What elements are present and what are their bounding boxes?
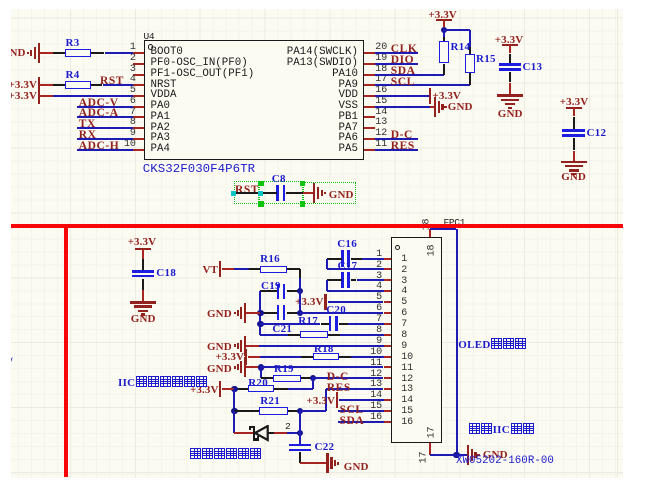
FPC1 pin 16 stub xyxy=(384,421,392,423)
R20 left lead xyxy=(236,388,248,390)
U4 pin 4 stub xyxy=(133,84,144,86)
ground (C8) xyxy=(313,183,315,203)
FPC1 pin name 1 (inside) xyxy=(401,254,407,265)
junction R21 right/RES xyxy=(297,408,303,414)
selection box (RST label) xyxy=(234,181,259,204)
net label D-C (U4) xyxy=(391,129,413,141)
R17 left lead xyxy=(288,334,300,336)
ground (C13) xyxy=(497,94,523,96)
junction +3.3V/R20/R21 xyxy=(231,386,237,392)
divider line vertical (red) xyxy=(64,224,68,477)
FPC1 pin name 6 (inside) xyxy=(401,308,407,319)
label select IIC mode (chinese) xyxy=(469,423,534,436)
divider line horizontal (red) xyxy=(11,224,624,228)
U4 pin name PA2 xyxy=(151,122,170,134)
label R16 xyxy=(260,253,280,265)
wire pin6 xyxy=(300,312,384,314)
U4 pin 2 stub xyxy=(133,63,144,65)
U4 pin number 5 xyxy=(130,85,136,96)
label IIC data address select (chinese) xyxy=(118,376,207,389)
net label CLK xyxy=(391,43,418,55)
net label TX xyxy=(79,118,96,130)
junction R21 left xyxy=(231,408,237,414)
wire ADC-V to pin6 xyxy=(77,106,133,108)
resistor R15 xyxy=(465,54,475,74)
FPC1 pin 9 stub xyxy=(384,345,392,347)
U4 pin 20 stub xyxy=(364,52,375,54)
U4 pin number 6 xyxy=(130,96,136,107)
FPC1 pin 12 stub xyxy=(384,377,392,379)
wire down to C19 node xyxy=(299,278,301,291)
R19 right lead xyxy=(301,377,314,379)
wire +3.3V to pin5 xyxy=(53,95,133,97)
wire +3.3V column down to R21 xyxy=(233,389,235,411)
C20 right lead xyxy=(339,323,349,325)
FPC1 pin name 11 (inside) xyxy=(401,363,413,374)
FPC1 pin 7 stub xyxy=(384,323,392,325)
wire gnd to node xyxy=(246,312,260,314)
power port +3.3V bar (pin5) xyxy=(324,294,326,310)
junction C21 right/pin6 xyxy=(297,310,303,316)
U4 pin name PA6 xyxy=(339,132,358,144)
power port +3.3V bar (C18) xyxy=(135,248,151,250)
FPC1 pin name 13 (inside) xyxy=(401,384,413,395)
wire R18 to pin10 xyxy=(351,356,384,358)
R19 left lead xyxy=(261,377,273,379)
FPC1 pin number 11 (outside) xyxy=(370,358,382,369)
junction D-C node xyxy=(310,375,316,381)
wire pin9 xyxy=(259,345,384,347)
wire ADC-A to pin7 xyxy=(77,116,133,118)
FPC1 pin 14 stub xyxy=(384,399,392,401)
C21 right lead xyxy=(287,312,300,314)
ground label GND xyxy=(1,47,26,59)
resistor R14 xyxy=(439,41,449,64)
FPC1 pin name 10 (inside) xyxy=(401,352,413,363)
U4 pin number 2 xyxy=(130,53,136,64)
FPC1 pin 3 stub xyxy=(384,279,392,281)
wire VT (red) xyxy=(222,268,234,270)
C16 right lead xyxy=(351,258,362,260)
ground label GND (pin6 node) xyxy=(207,308,232,320)
U4 pin name NRST xyxy=(151,79,177,91)
ground (left of R3) xyxy=(38,43,40,63)
capacitor C13 xyxy=(499,63,522,66)
U4 pin number 15 xyxy=(375,96,387,107)
U4 pin 9 stub xyxy=(133,138,144,140)
FPC1 pin name 12 (inside) xyxy=(401,374,413,385)
ground (pin9) xyxy=(234,344,236,346)
R18 right lead xyxy=(339,356,351,358)
selection handle (green) xyxy=(258,181,263,186)
wire RES up to pin13 row xyxy=(325,389,327,411)
FPC1 pin name 18 (inside, rotated) xyxy=(426,244,437,256)
FPC1 pin number 5 (outside) xyxy=(376,292,382,303)
wire TX to pin8 xyxy=(77,127,133,129)
viewport margin right xyxy=(623,0,647,487)
wire RES node right xyxy=(300,410,326,412)
net label ADC-H xyxy=(79,140,119,152)
U4 pin 10 stub xyxy=(133,149,144,151)
U4 pin number 12 xyxy=(375,128,387,139)
FPC1 pin name 9 (inside) xyxy=(401,341,407,352)
stem +3.3V xyxy=(443,20,445,28)
resistor R18 xyxy=(313,353,339,360)
R15 top lead xyxy=(469,47,471,54)
stem +3.3V C13 xyxy=(509,45,511,53)
wire gnd column to R17 xyxy=(260,334,288,336)
selection box (GND port) xyxy=(303,182,357,204)
U4 pin 16 stub xyxy=(364,95,375,97)
wire pin18 to pin17 (vertical) xyxy=(456,229,458,455)
wire gnd to R3 xyxy=(40,52,53,54)
FPC1 pin number 9 (outside) xyxy=(376,336,382,347)
FPC1 pin name 2 (inside) xyxy=(401,265,407,276)
label C8 xyxy=(272,173,286,185)
U4 pin 15 stub xyxy=(364,106,375,108)
junction pin17/gnd xyxy=(453,452,459,458)
ground label GND (C13) xyxy=(498,108,523,120)
power label +3.3V (pin14) xyxy=(307,395,335,407)
port label VT xyxy=(203,264,218,276)
U4 pin name VDDA xyxy=(151,89,177,101)
R14 bottom lead to SDA xyxy=(443,64,445,75)
power label +3.3V (pin5) xyxy=(295,296,323,308)
FPC1 pin name 3 (inside) xyxy=(401,276,407,287)
FPC1 pin 6 stub xyxy=(384,312,392,314)
port VT bar xyxy=(219,261,221,277)
selection handle (green) xyxy=(258,201,263,206)
U4 pin name PB1 xyxy=(339,111,358,123)
FPC1 pin name 5 (inside) xyxy=(401,297,407,308)
ground label GND (C8) xyxy=(329,189,354,201)
U4 pin number 11 xyxy=(375,139,387,150)
C17 left lead xyxy=(327,279,342,281)
U4 pin 13 stub xyxy=(364,127,375,129)
viewport margin bottom xyxy=(0,478,647,487)
stem +3.3V C18 xyxy=(142,249,144,259)
FPC1 pin 8 stub xyxy=(384,334,392,336)
designator FPC1 xyxy=(444,217,466,228)
junction diode/C22 xyxy=(297,430,303,436)
resistor R17 xyxy=(300,331,329,339)
power label +3.3V (top) xyxy=(428,9,456,21)
wire C16 to pin1 xyxy=(362,258,384,260)
wire ADC-H to pin10 xyxy=(77,149,133,151)
C18 bottom lead xyxy=(142,279,144,290)
power label +3.3V (R20) xyxy=(190,384,218,396)
U4 pin number 9 xyxy=(130,128,136,139)
U4 pin number 4 xyxy=(130,74,136,85)
power port +3.3V bar (C12) xyxy=(566,107,582,109)
U4 pin name PA14(SWCLK) xyxy=(287,46,358,58)
C18 top lead xyxy=(142,259,144,271)
R20 right lead xyxy=(274,388,288,390)
pin-1 marker dot FPC1 xyxy=(395,245,400,250)
junction C19/R16 xyxy=(297,288,303,294)
wire gnd column to C20 xyxy=(260,323,320,325)
wire D-C node down xyxy=(312,378,314,389)
U4 pin number 16 xyxy=(375,85,387,96)
wire R4 to pin4 (RST) xyxy=(103,84,134,86)
U4 pin 19 stub xyxy=(364,63,375,65)
power port +3.3V bar (left, pins 4/5) xyxy=(38,77,40,104)
ground (pin6 node) xyxy=(234,312,236,314)
wire pin4 xyxy=(327,290,384,292)
wire C20 to pin7 xyxy=(348,323,384,325)
wire down to R19 xyxy=(260,367,262,378)
junction pin7/gnd column xyxy=(257,321,263,327)
power port +3.3V bar (pin10) xyxy=(245,349,247,365)
selection handle (cyan) xyxy=(258,191,263,196)
wire pin5 xyxy=(328,301,384,303)
ground label GND (C22) xyxy=(344,461,369,473)
capacitor C22 xyxy=(289,444,312,447)
FPC1 pin 2 stub xyxy=(384,268,392,270)
wire RST to C8 xyxy=(233,192,261,194)
FPC1 pin 15 stub xyxy=(384,410,392,412)
U4 pin 1 stub xyxy=(133,52,144,54)
U4 pin name PA13(SWDIO) xyxy=(287,57,358,69)
FPC1 pin number 7 (outside) xyxy=(376,314,382,325)
U4 pin name PF0-OSC_IN(PF0) xyxy=(151,57,248,69)
wire pin16 VDD xyxy=(375,95,430,97)
resistor R21 xyxy=(259,407,288,415)
capacitor C17 xyxy=(341,272,344,288)
wire pin12 D-C xyxy=(375,138,418,140)
ground label GND (pin11) xyxy=(207,363,232,375)
U4 pin 14 stub xyxy=(364,116,375,118)
label R3 xyxy=(66,37,80,49)
label C22 xyxy=(315,441,335,453)
junction C21 left/gnd xyxy=(257,310,263,316)
power label +3.3V (C12) xyxy=(560,96,588,108)
label C16 xyxy=(337,238,357,250)
C12 top lead xyxy=(573,117,575,131)
FPC1 pin 18 stub xyxy=(429,229,431,237)
junction (R14/R15 top) xyxy=(441,27,447,33)
wire pin15 VSS xyxy=(375,106,430,108)
C19 right lead xyxy=(287,290,300,292)
C22 bottom lead xyxy=(299,452,301,463)
FPC1 pin name 15 (inside) xyxy=(401,406,413,417)
U4 pin name PA5 xyxy=(339,143,358,155)
power port +3.3V bar (pin16) xyxy=(429,88,431,104)
wire pin12 D-C xyxy=(313,377,383,379)
U4 pin name VSS xyxy=(339,100,358,112)
wire gnd pin9 xyxy=(246,345,259,347)
wire C18 to gnd xyxy=(142,290,144,302)
FPC1 pin name 16 (inside) xyxy=(401,417,413,428)
wire gnd pin11 xyxy=(246,366,261,368)
viewport margin top xyxy=(0,0,647,9)
FPC1 pin number 12 (outside) xyxy=(370,369,382,380)
label R19 xyxy=(274,363,294,375)
R21 right lead xyxy=(288,410,300,412)
R3 left lead xyxy=(53,52,65,54)
U4 pin number 18 xyxy=(375,64,387,75)
U4 pin 7 stub xyxy=(133,116,144,118)
capacitor C18 xyxy=(132,270,155,273)
R14 top lead xyxy=(443,37,445,41)
label R14 xyxy=(451,41,471,53)
power label +3.3V (pin10) xyxy=(216,351,244,363)
U4 pin name PA1 xyxy=(151,111,170,123)
selection box (capacitor C8) xyxy=(259,181,303,204)
wire column right (to pin6 row) xyxy=(299,291,301,313)
net label RES xyxy=(327,382,351,394)
FPC1 pin name 8 (inside) xyxy=(401,330,407,341)
U4 pin name VDD xyxy=(339,89,358,101)
wire junction to R15 column xyxy=(444,29,470,31)
resistor R20 xyxy=(248,385,275,392)
clipped net label (left edge) xyxy=(9,355,13,370)
power port +3.3V bar (C13) xyxy=(502,44,518,46)
FPC1 pin number 2 (outside) xyxy=(376,260,382,271)
C8 right lead xyxy=(286,192,303,194)
R16 right lead xyxy=(287,268,300,270)
U4 pin number 1 xyxy=(130,42,136,53)
U4 pin number 13 xyxy=(375,117,387,128)
C16 left lead xyxy=(327,258,342,260)
wire pin11 xyxy=(261,366,384,368)
wire to junction xyxy=(443,28,445,31)
net label D-C xyxy=(327,371,349,383)
power label +3.3V (C13) xyxy=(495,34,523,46)
U4 pin 5 stub xyxy=(133,95,144,97)
label R17 xyxy=(298,315,318,327)
FPC1 pin number 17 (outside, rotated) xyxy=(418,451,429,463)
diode pin number 2 xyxy=(285,421,290,432)
FPC1 pin number 6 (outside) xyxy=(376,303,382,314)
capacitor C20 xyxy=(329,316,332,331)
R16 lead corner down xyxy=(299,269,301,278)
ground (C22) xyxy=(326,453,328,473)
wire +3.3V to R4 xyxy=(40,84,52,86)
wire R17 to pin8 xyxy=(340,334,384,336)
label C20 xyxy=(326,304,346,316)
ground label GND (pin9) xyxy=(207,341,232,353)
label C12 xyxy=(587,127,607,139)
ground label GND (C18) xyxy=(131,313,156,325)
ground label GND (FPC1) xyxy=(483,449,508,461)
resistor R16 xyxy=(260,266,287,274)
ground (pin11) xyxy=(234,366,236,368)
wire RX to pin9 xyxy=(77,138,133,140)
U4 pin 8 stub xyxy=(133,127,144,129)
U4 pin 11 stub xyxy=(364,149,375,151)
wire RES node to C22 xyxy=(299,411,301,445)
FPC1 pin number 15 (outside) xyxy=(370,401,382,412)
C13 bottom lead xyxy=(509,72,511,83)
C17 right lead xyxy=(351,279,357,281)
label C18 xyxy=(156,267,176,279)
FPC1 pin number 18 (outside, rotated) xyxy=(421,218,432,230)
net label RES (U4) xyxy=(391,140,415,152)
wire +3.3V to junction xyxy=(222,388,234,390)
C20 left lead xyxy=(321,323,331,325)
wire pin19 DIO xyxy=(375,63,418,65)
designator U4 xyxy=(144,31,155,42)
U4 pin name PA4 xyxy=(151,143,170,155)
net label ADC-V xyxy=(79,97,119,109)
wire pin13 RES xyxy=(326,388,383,390)
U4 pin number 10 xyxy=(124,139,136,150)
net label SCL xyxy=(391,76,415,88)
net label ADC-A xyxy=(79,107,119,119)
FPC1 pin number 13 (outside) xyxy=(370,379,382,390)
diode anode lead xyxy=(268,432,274,434)
label R21 xyxy=(260,395,280,407)
ground label GND (pin15) xyxy=(448,101,473,113)
U4 pin 3 stub xyxy=(133,74,144,76)
U4 pin name PA9 xyxy=(339,79,358,91)
FPC1 pin number 14 (outside) xyxy=(370,390,382,401)
net label SDA xyxy=(340,415,365,427)
R3 right lead xyxy=(91,52,104,54)
FPC1 pin 5 stub xyxy=(384,301,392,303)
capacitor C21 xyxy=(277,305,280,320)
R17 right lead xyxy=(328,334,340,336)
power port +3.3V bar (top) xyxy=(436,19,452,21)
power label +3.3V (pin4) xyxy=(9,79,37,91)
ground (pin15) xyxy=(434,97,436,117)
ground (FPC1 pin17) xyxy=(467,445,469,465)
selection handle (cyan) xyxy=(231,191,236,196)
U4 pin name PA0 xyxy=(151,100,170,112)
wire down to R15 xyxy=(469,30,471,47)
capacitor C8 xyxy=(276,185,279,201)
FPC1 pin number 16 (outside) xyxy=(370,412,382,423)
wire R3 to pin1 xyxy=(105,52,134,54)
U4 pin name PA7 xyxy=(339,122,358,134)
connector FPC1 body xyxy=(391,237,442,443)
pin-1 marker dot U4 xyxy=(148,44,153,49)
R15 bottom lead to SCL xyxy=(469,73,471,85)
U4 pin 12 stub xyxy=(364,138,375,140)
selection handle (green) xyxy=(300,201,305,206)
R18 left lead xyxy=(301,356,313,358)
value XW05202-160R-00 xyxy=(456,455,554,467)
resistor R3 xyxy=(65,49,92,57)
net label RST (C8) xyxy=(235,184,259,196)
FPC1 pin number 3 (outside) xyxy=(376,271,382,282)
U4 pin name BOOT0 xyxy=(151,46,183,58)
label R20 xyxy=(248,377,268,389)
power label +3.3V (C18) xyxy=(128,236,156,248)
ground (C18) xyxy=(130,301,156,303)
FPC1 pin number 8 (outside) xyxy=(376,325,382,336)
FPC1 pin 1 stub xyxy=(384,258,392,260)
selection handle (green) xyxy=(300,181,305,186)
capacitor C19 xyxy=(277,284,280,299)
wire pin16 SDA xyxy=(338,421,384,423)
FPC1 pin number 4 (outside) xyxy=(376,281,382,292)
C13 top lead xyxy=(509,54,511,65)
junction pin11/R19 xyxy=(258,364,264,370)
wire pin18 top xyxy=(430,228,457,230)
C8 left lead xyxy=(261,192,277,194)
power port +3.3V bar (R20) xyxy=(219,381,221,397)
wire +3.3V to pin5 (red) xyxy=(40,95,52,97)
U4 pin name PA10 xyxy=(332,68,358,80)
power label +3.3V (pin5) xyxy=(9,90,37,102)
resistor R4 xyxy=(65,81,92,89)
wire pin15 SCL xyxy=(338,410,384,412)
U4 pin number 17 xyxy=(375,74,387,85)
U4 pin number 8 xyxy=(130,117,136,128)
FPC1 pin name 14 (inside) xyxy=(401,395,413,406)
